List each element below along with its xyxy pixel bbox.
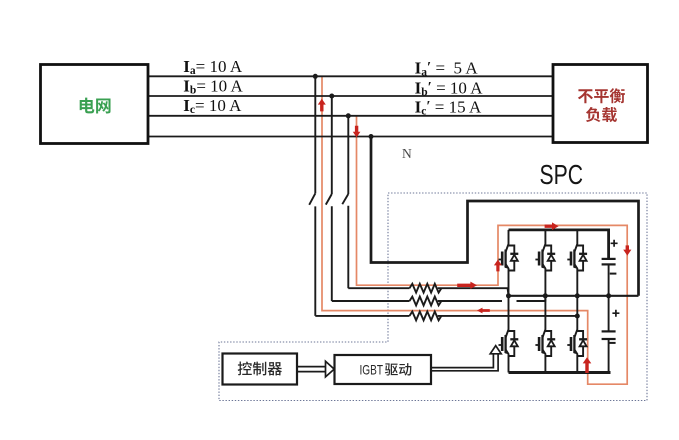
node capacitor midpoint bbox=[606, 293, 611, 298]
wire leg 1 lower from midpoint bbox=[508, 296, 510, 325]
wire grid line phase a bbox=[148, 75, 553, 77]
flow arrow down right of C1 bbox=[623, 245, 631, 255]
flow arrow up left of Q1 bbox=[494, 260, 502, 272]
IGBT Q2 (IGBT with anti-parallel diode) bbox=[535, 239, 555, 272]
IGBT Q3 (IGBT with anti-parallel diode) bbox=[567, 239, 587, 272]
wire midpoint rail to N bbox=[509, 295, 639, 297]
capacitor C2 (lower DC-link) bbox=[602, 296, 620, 373]
IGBT Q5 (IGBT with anti-parallel diode) bbox=[535, 325, 555, 358]
breaker switch S3 on phase c tap bbox=[342, 116, 348, 288]
wire phase b to inductor L2 bbox=[332, 300, 410, 302]
flow arrow up right of Q6 bbox=[583, 357, 592, 373]
flow arrow up into phase a bbox=[318, 99, 326, 112]
node phase a to leg3 bbox=[575, 314, 580, 319]
driver box IGBT驱动 bbox=[335, 355, 432, 384]
hollow arrow driver to Q4 gate bbox=[431, 346, 501, 371]
wire phase a to inductor L3 bbox=[315, 315, 409, 317]
wire phase c to inductor L1 bbox=[348, 287, 409, 289]
inductor L2 (filter inductor) bbox=[410, 297, 442, 306]
wire leg 2 to bottom rail bbox=[544, 358, 546, 373]
node leg2 midpoint bbox=[543, 293, 548, 298]
wire leg 2 upper bbox=[544, 230, 546, 239]
hollow arrow controller to driver bbox=[297, 361, 334, 377]
wire leg 3 lower from midpoint bbox=[576, 296, 578, 325]
flow arrow right toward converter bbox=[457, 282, 477, 289]
wire leg 2 lower from midpoint bbox=[544, 296, 546, 325]
node leg1 midpoint bbox=[506, 293, 511, 298]
node N tap bbox=[369, 134, 374, 139]
svg-text:SPC: SPC bbox=[540, 159, 584, 190]
node phase a tap bbox=[313, 74, 318, 79]
wire DC bottom rail bbox=[509, 371, 611, 374]
IGBT Q4 (IGBT with anti-parallel diode) bbox=[499, 325, 519, 358]
breaker switch S2 on phase b tap bbox=[326, 96, 332, 301]
node phase b tap bbox=[329, 94, 334, 99]
wire neutral N into converter midpoint bbox=[371, 137, 639, 296]
node leg3 midpoint bbox=[575, 293, 580, 298]
wire leg 3 to bottom rail bbox=[576, 358, 578, 373]
wire grid line phase b bbox=[148, 95, 553, 97]
breaker switch S1 on phase a tap bbox=[309, 76, 315, 316]
flow arrow left out of converter bbox=[477, 308, 490, 314]
IGBT Q6 (IGBT with anti-parallel diode) bbox=[567, 325, 587, 358]
wire neutral line N bbox=[145, 136, 553, 138]
wire grid line phase c bbox=[148, 115, 553, 117]
SPC dashed boundary box bbox=[219, 193, 647, 401]
capacitor C1 (upper DC-link) bbox=[602, 240, 618, 296]
flow arrow right over top rail bbox=[545, 222, 559, 230]
unbalanced load box 不平衡负载 bbox=[553, 65, 648, 143]
flow arrow down from phase c bbox=[353, 126, 361, 138]
wire leg 1 upper bbox=[508, 230, 510, 239]
svg-text:N: N bbox=[402, 146, 412, 161]
wire leg 3 to midpoint rail bbox=[576, 272, 578, 296]
wire leg 1 to midpoint rail bbox=[508, 272, 510, 296]
wire leg 3 upper bbox=[576, 230, 578, 239]
wire leg 1 to bottom rail bbox=[508, 358, 510, 373]
node phase c tap bbox=[346, 113, 351, 118]
inductor L1 (filter inductor) bbox=[410, 284, 442, 293]
IGBT Q1 (IGBT with anti-parallel diode) bbox=[499, 239, 519, 272]
svg-text:IGBT: IGBT bbox=[360, 362, 384, 378]
wire leg 2 to midpoint rail bbox=[544, 272, 546, 296]
controller box 控制器 bbox=[223, 354, 298, 385]
wire DC top rail bbox=[509, 230, 609, 258]
wire inductor L1 to leg 1 midpoint bbox=[438, 288, 509, 296]
inductor L3 (filter inductor) bbox=[410, 312, 442, 321]
compensation current path (orange wire) bbox=[322, 76, 627, 384]
grid source box 电网 bbox=[41, 65, 149, 144]
wire inductor L2 to leg 2 midpoint (with crossover gap) bbox=[438, 296, 546, 302]
wire inductor L3 to leg 3 bbox=[438, 315, 578, 317]
